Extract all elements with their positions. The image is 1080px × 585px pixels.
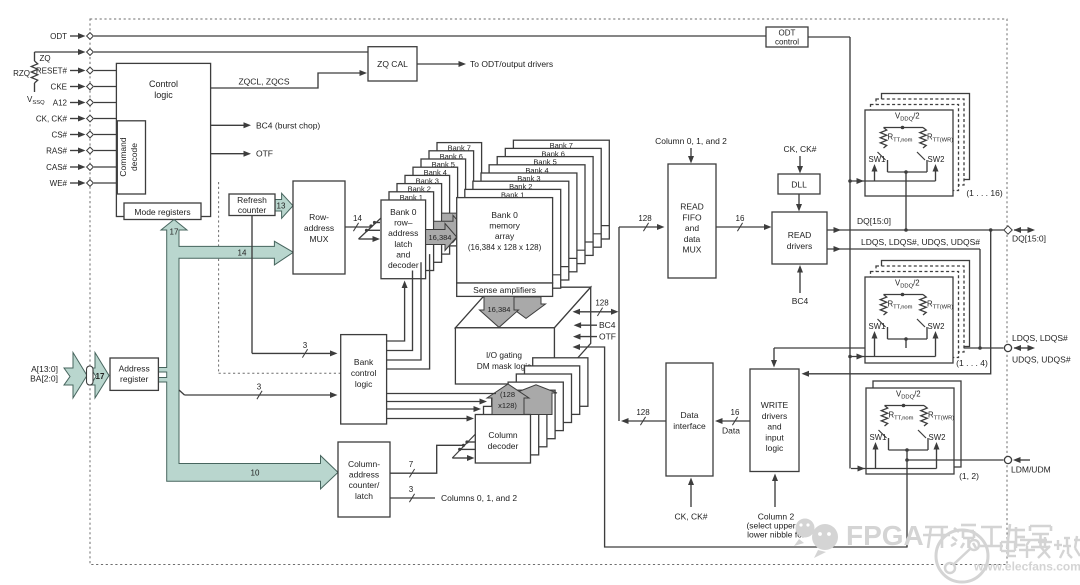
svg-text:SW1: SW1 bbox=[870, 433, 887, 442]
svg-text:x128): x128) bbox=[498, 401, 517, 410]
block: ODT control bbox=[766, 27, 808, 47]
svg-text:data: data bbox=[684, 234, 701, 244]
svg-text:Mode registers: Mode registers bbox=[134, 207, 190, 217]
watermark elecfans logo and text bbox=[936, 530, 1080, 582]
wire LDQS strobes read drivers to DQS node bbox=[827, 237, 980, 348]
pad DQ[15:0] bbox=[1004, 226, 1046, 244]
termination cell DM (1, 2) with shadow copy bbox=[851, 381, 979, 547]
svg-text:register: register bbox=[120, 374, 149, 384]
wire 14 row-address MUX to latch stack with fan bbox=[345, 214, 381, 242]
svg-text:and: and bbox=[767, 422, 781, 432]
svg-text:ZQ: ZQ bbox=[39, 54, 50, 63]
svg-text:LDM/UDM: LDM/UDM bbox=[1011, 465, 1051, 475]
svg-text:www.elecfans.com: www.elecfans.com bbox=[973, 560, 1080, 574]
svg-text:Address: Address bbox=[119, 364, 150, 374]
wire 16 Data write drivers to data interface bbox=[715, 408, 750, 436]
svg-text:LDQS, LDQS#: LDQS, LDQS# bbox=[1012, 333, 1068, 343]
svg-text:decoder: decoder bbox=[388, 260, 419, 270]
block: Command decode (inside control logic) bbox=[117, 121, 145, 194]
resistor RZQ to VSSQ bbox=[13, 52, 45, 106]
wire OTF output bbox=[211, 149, 273, 159]
svg-text:counter/: counter/ bbox=[349, 480, 380, 490]
svg-text:Command: Command bbox=[118, 137, 128, 176]
svg-text:FPGA: FPGA bbox=[846, 520, 924, 551]
svg-text:DQ[15:0]: DQ[15:0] bbox=[1012, 234, 1046, 244]
wire bank address 3 to bank control logic bbox=[179, 383, 338, 400]
watermark WeChat icon bbox=[794, 519, 838, 559]
svg-text:LDQS, LDQS#, UDQS, UDQS#: LDQS, LDQS#, UDQS, UDQS# bbox=[861, 237, 980, 247]
wire Column 0, 1, and 2 into READ FIFO bbox=[655, 136, 727, 164]
wire ZQCL, ZQCS from control logic to ZQ CAL bbox=[211, 70, 367, 88]
input pin RAS# bbox=[46, 147, 93, 156]
svg-text:BA[2:0]: BA[2:0] bbox=[30, 374, 58, 384]
block: Bank 0 row-address latch and decoder bbox=[381, 200, 426, 279]
svg-text:128: 128 bbox=[636, 408, 650, 417]
block: Sense amplifiers bbox=[457, 283, 553, 296]
wire BC4 into I/O gating bbox=[574, 320, 616, 330]
block: Address register bbox=[110, 358, 158, 390]
svg-text:FIFO: FIFO bbox=[682, 212, 702, 222]
block: Column-address counter/latch bbox=[338, 442, 390, 517]
wire CS# to control logic bbox=[94, 134, 116, 136]
wire OTF into I/O gating bbox=[573, 332, 616, 342]
input pin CKE bbox=[51, 83, 94, 92]
wire DM mask from LDM/UDM into I/O gating bbox=[573, 344, 908, 547]
svg-text:CS#: CS# bbox=[51, 131, 67, 140]
wire CK, CK# into DLL bbox=[783, 144, 816, 174]
svg-text:ODT: ODT bbox=[50, 32, 67, 41]
svg-text:(16,384 x 128 x 128): (16,384 x 128 x 128) bbox=[468, 243, 542, 252]
wire DQ write path into WRITE drivers bbox=[802, 230, 991, 377]
wire ODT control to termination switches bbox=[808, 37, 852, 469]
svg-text:3: 3 bbox=[409, 485, 414, 494]
svg-text:17: 17 bbox=[96, 372, 105, 381]
block: WRITE drivers and input logic bbox=[750, 369, 799, 472]
block: Mode registers bbox=[124, 203, 201, 220]
svg-text:13: 13 bbox=[277, 202, 286, 211]
wire 7 column-address counter to column decoder with fan bbox=[390, 434, 476, 477]
svg-text:SW2: SW2 bbox=[928, 155, 945, 164]
gray bus arrow 16,384 shadow copies bbox=[434, 207, 473, 242]
teal input arrow 17 (address/bank address) bbox=[64, 353, 109, 399]
block: ZQ CAL bbox=[368, 47, 417, 81]
svg-text:3: 3 bbox=[257, 383, 262, 392]
wire CKE to control logic bbox=[94, 86, 116, 88]
block: READ drivers bbox=[772, 212, 827, 264]
svg-text:14: 14 bbox=[353, 214, 362, 223]
svg-text:Columns 0, 1, and 2: Columns 0, 1, and 2 bbox=[441, 493, 517, 503]
svg-text:and: and bbox=[685, 223, 699, 233]
wire BC4 into READ drivers bbox=[792, 265, 809, 306]
svg-text:To ODT/output drivers: To ODT/output drivers bbox=[470, 59, 553, 69]
svg-text:drivers: drivers bbox=[787, 241, 813, 251]
wire ZQ input to ZQ CAL bbox=[39, 52, 368, 63]
svg-text:(1, 2): (1, 2) bbox=[959, 471, 979, 481]
svg-text:row–: row– bbox=[394, 218, 413, 228]
pad LDQS/UDQS bbox=[1004, 333, 1070, 365]
svg-text:logic: logic bbox=[766, 443, 784, 453]
svg-text:I/O gating: I/O gating bbox=[486, 350, 522, 360]
svg-text:CK, CK#: CK, CK# bbox=[783, 144, 816, 154]
wire CK, CK# to control logic bbox=[94, 118, 116, 120]
svg-text:128: 128 bbox=[595, 299, 609, 308]
svg-text:MUX: MUX bbox=[310, 234, 329, 244]
svg-text:BC4 (burst chop): BC4 (burst chop) bbox=[256, 120, 320, 130]
svg-text:10: 10 bbox=[251, 469, 260, 478]
svg-text:16,384: 16,384 bbox=[488, 305, 511, 314]
input pin ODT bbox=[50, 32, 93, 41]
svg-text:control: control bbox=[351, 368, 377, 378]
svg-text:Data: Data bbox=[681, 410, 699, 420]
termination cell DQS (1...4) with shadow copies bbox=[850, 261, 988, 369]
wire ODT input to ODT control bbox=[94, 35, 766, 37]
stack: Bank 1-7 row-address latch shadow boxes bbox=[389, 143, 482, 271]
svg-text:Control: Control bbox=[149, 79, 178, 89]
gray bus arrow 16,384 sense amps to I/O gating bbox=[480, 296, 519, 327]
wire 16 READ FIFO to READ drivers bbox=[716, 214, 772, 231]
wire RESET# to control logic bbox=[94, 70, 116, 72]
svg-text:CK, CK#: CK, CK# bbox=[674, 512, 707, 522]
wire LDM/UDM pad line bbox=[907, 456, 1051, 474]
input pin WE# bbox=[50, 179, 94, 188]
wires bank control logic up to row-address latch stack bbox=[387, 254, 430, 369]
svg-text:RAS#: RAS# bbox=[46, 147, 67, 156]
svg-text:DLL: DLL bbox=[791, 180, 807, 190]
wire Column 2 select into WRITE drivers bbox=[746, 474, 805, 540]
block: Bank 0 memory array bbox=[457, 198, 553, 283]
svg-text:RZQ: RZQ bbox=[13, 69, 30, 78]
block: Data interface bbox=[666, 363, 713, 476]
block: Row-address MUX bbox=[293, 181, 345, 274]
svg-text:decode: decode bbox=[129, 143, 139, 171]
svg-text:(128: (128 bbox=[500, 390, 515, 399]
svg-text:input: input bbox=[765, 432, 784, 442]
svg-text:Bank 0: Bank 0 bbox=[491, 210, 518, 220]
svg-text:decoder: decoder bbox=[488, 441, 519, 451]
svg-text:Bank: Bank bbox=[354, 357, 374, 367]
stack: Bank 1-7 memory array shadow boxes bbox=[465, 140, 610, 288]
input pin CS# bbox=[51, 131, 93, 140]
svg-text:SW1: SW1 bbox=[869, 155, 886, 164]
input pin ZQ bbox=[35, 49, 94, 56]
wire BC4 (burst chop) output bbox=[211, 120, 321, 130]
svg-text:ZQ CAL: ZQ CAL bbox=[377, 59, 408, 69]
wire CAS# to control logic bbox=[94, 166, 116, 168]
svg-text:A[13:0]: A[13:0] bbox=[31, 364, 58, 374]
svg-text:Sense amplifiers: Sense amplifiers bbox=[473, 285, 536, 295]
wire 128 bidirectional I/O gating bbox=[573, 299, 619, 317]
svg-text:128: 128 bbox=[638, 214, 652, 223]
block: READ FIFO and data MUX bbox=[668, 164, 716, 278]
block: DLL bbox=[778, 174, 820, 194]
svg-text:SW1: SW1 bbox=[869, 322, 886, 331]
svg-text:Row-: Row- bbox=[309, 212, 329, 222]
svg-text:CAS#: CAS# bbox=[46, 163, 67, 172]
input pin CK, CK# bbox=[36, 115, 94, 124]
gray bus arrow 16,384 row-address latch to memory array bbox=[426, 224, 457, 251]
svg-text:CK, CK#: CK, CK# bbox=[36, 115, 68, 124]
wire CK, CK# into data interface bbox=[674, 478, 707, 522]
svg-text:Refresh: Refresh bbox=[237, 195, 267, 205]
svg-text:address: address bbox=[304, 223, 334, 233]
wire 128 data interface to read/write bus bbox=[621, 408, 666, 425]
svg-text:READ: READ bbox=[680, 202, 704, 212]
svg-text:Column-: Column- bbox=[348, 459, 380, 469]
wire 128 read data bus (vertical) bbox=[619, 214, 665, 421]
svg-text:16: 16 bbox=[736, 214, 745, 223]
input pin CAS# bbox=[46, 163, 93, 172]
svg-text:17: 17 bbox=[170, 228, 179, 237]
block: Refresh counter bbox=[229, 194, 275, 216]
block: Column decoder bbox=[475, 415, 530, 464]
svg-text:SW2: SW2 bbox=[929, 433, 946, 442]
svg-text:OTF: OTF bbox=[599, 332, 616, 342]
gray bus arrow (128 x128) column decoder to I/O gating bbox=[487, 384, 529, 415]
input pin RESET# bbox=[36, 67, 94, 76]
svg-text:Bank 0: Bank 0 bbox=[390, 207, 417, 217]
block: Bank control logic bbox=[341, 335, 387, 424]
svg-text:7: 7 bbox=[409, 460, 414, 469]
svg-text:DQ[15:0]: DQ[15:0] bbox=[857, 216, 891, 226]
svg-text:address: address bbox=[388, 228, 418, 238]
svg-text:WRITE: WRITE bbox=[761, 400, 789, 410]
svg-text:UDQS, UDQS#: UDQS, UDQS# bbox=[1012, 355, 1071, 365]
svg-text:interface: interface bbox=[673, 421, 706, 431]
block: Control logic U1 bbox=[116, 63, 210, 216]
svg-text:array: array bbox=[495, 231, 515, 241]
termination cell DQ (1...16) with shadow copies bbox=[850, 94, 1003, 231]
svg-text:WE#: WE# bbox=[50, 179, 68, 188]
svg-text:logic: logic bbox=[154, 90, 173, 100]
gray bus arrow 16,384 sense amps to I/O gating (shadow) bbox=[507, 297, 546, 319]
svg-text:3: 3 bbox=[303, 341, 308, 350]
input labels A[13:0] BA[2:0] bbox=[30, 364, 58, 384]
inner dashed boundary bbox=[219, 182, 341, 373]
input pin A12 bbox=[53, 99, 94, 108]
wire DLL to READ drivers bbox=[796, 194, 802, 212]
block: I/O gating DM mask logic (3D) bbox=[455, 287, 590, 384]
svg-text:DM mask logic: DM mask logic bbox=[477, 361, 531, 371]
svg-text:control: control bbox=[775, 38, 799, 47]
wire WE# to control logic bbox=[94, 182, 116, 184]
wire refresh counter to bank control logic (3) bbox=[252, 216, 338, 358]
svg-text:counter: counter bbox=[238, 205, 267, 215]
svg-text:(1 . . . 16): (1 . . . 16) bbox=[966, 188, 1003, 198]
svg-text:address: address bbox=[349, 470, 379, 480]
wire DQS pad line bbox=[771, 346, 1004, 367]
svg-text:RESET#: RESET# bbox=[36, 67, 68, 76]
wire DQ[15:0] read drivers to pad bbox=[827, 216, 1004, 233]
svg-text:logic: logic bbox=[355, 379, 373, 389]
svg-text:MUX: MUX bbox=[683, 245, 702, 255]
svg-text:Data: Data bbox=[722, 426, 740, 436]
svg-text:14: 14 bbox=[238, 249, 247, 258]
svg-text:BC4: BC4 bbox=[792, 296, 809, 306]
watermark text FPGA open source studio bbox=[846, 520, 1051, 551]
svg-text:latch: latch bbox=[394, 239, 412, 249]
svg-text:Column 0, 1, and 2: Column 0, 1, and 2 bbox=[655, 136, 727, 146]
svg-text:CKE: CKE bbox=[51, 83, 67, 92]
stack: column decoder shadow boxes bbox=[484, 358, 588, 455]
svg-text:(1 . . . 4): (1 . . . 4) bbox=[956, 358, 988, 368]
svg-text:Column: Column bbox=[488, 430, 518, 440]
teal arrow 13 refresh counter to row-address MUX bbox=[275, 193, 293, 218]
svg-text:and: and bbox=[396, 249, 410, 259]
svg-text:ZQCL, ZQCS: ZQCL, ZQCS bbox=[238, 77, 289, 87]
wires bank control logic to column decoder stack bbox=[387, 394, 496, 422]
gray bus arrow (128 x128) shadow copy bbox=[515, 385, 557, 415]
svg-text:BC4: BC4 bbox=[599, 320, 616, 330]
svg-text:16: 16 bbox=[731, 408, 740, 417]
wire ZQ CAL to ODT/output drivers bbox=[417, 59, 553, 69]
svg-text:A12: A12 bbox=[53, 99, 68, 108]
wire 3 Columns 0, 1, and 2 output bbox=[390, 485, 517, 503]
svg-text:drivers: drivers bbox=[762, 411, 788, 421]
outer dashed boundary of SDRAM device bbox=[90, 19, 1007, 565]
svg-text:SW2: SW2 bbox=[928, 322, 945, 331]
wire RAS# to control logic bbox=[94, 150, 116, 152]
svg-text:OTF: OTF bbox=[256, 149, 273, 159]
svg-text:memory: memory bbox=[489, 221, 520, 231]
svg-text:READ: READ bbox=[788, 230, 812, 240]
wire A12 to control logic bbox=[94, 102, 116, 104]
teal address bus (17/14/10) network bbox=[158, 220, 338, 490]
svg-text:ODT: ODT bbox=[779, 29, 796, 38]
svg-text:16,384: 16,384 bbox=[429, 233, 452, 242]
svg-text:latch: latch bbox=[355, 491, 373, 501]
